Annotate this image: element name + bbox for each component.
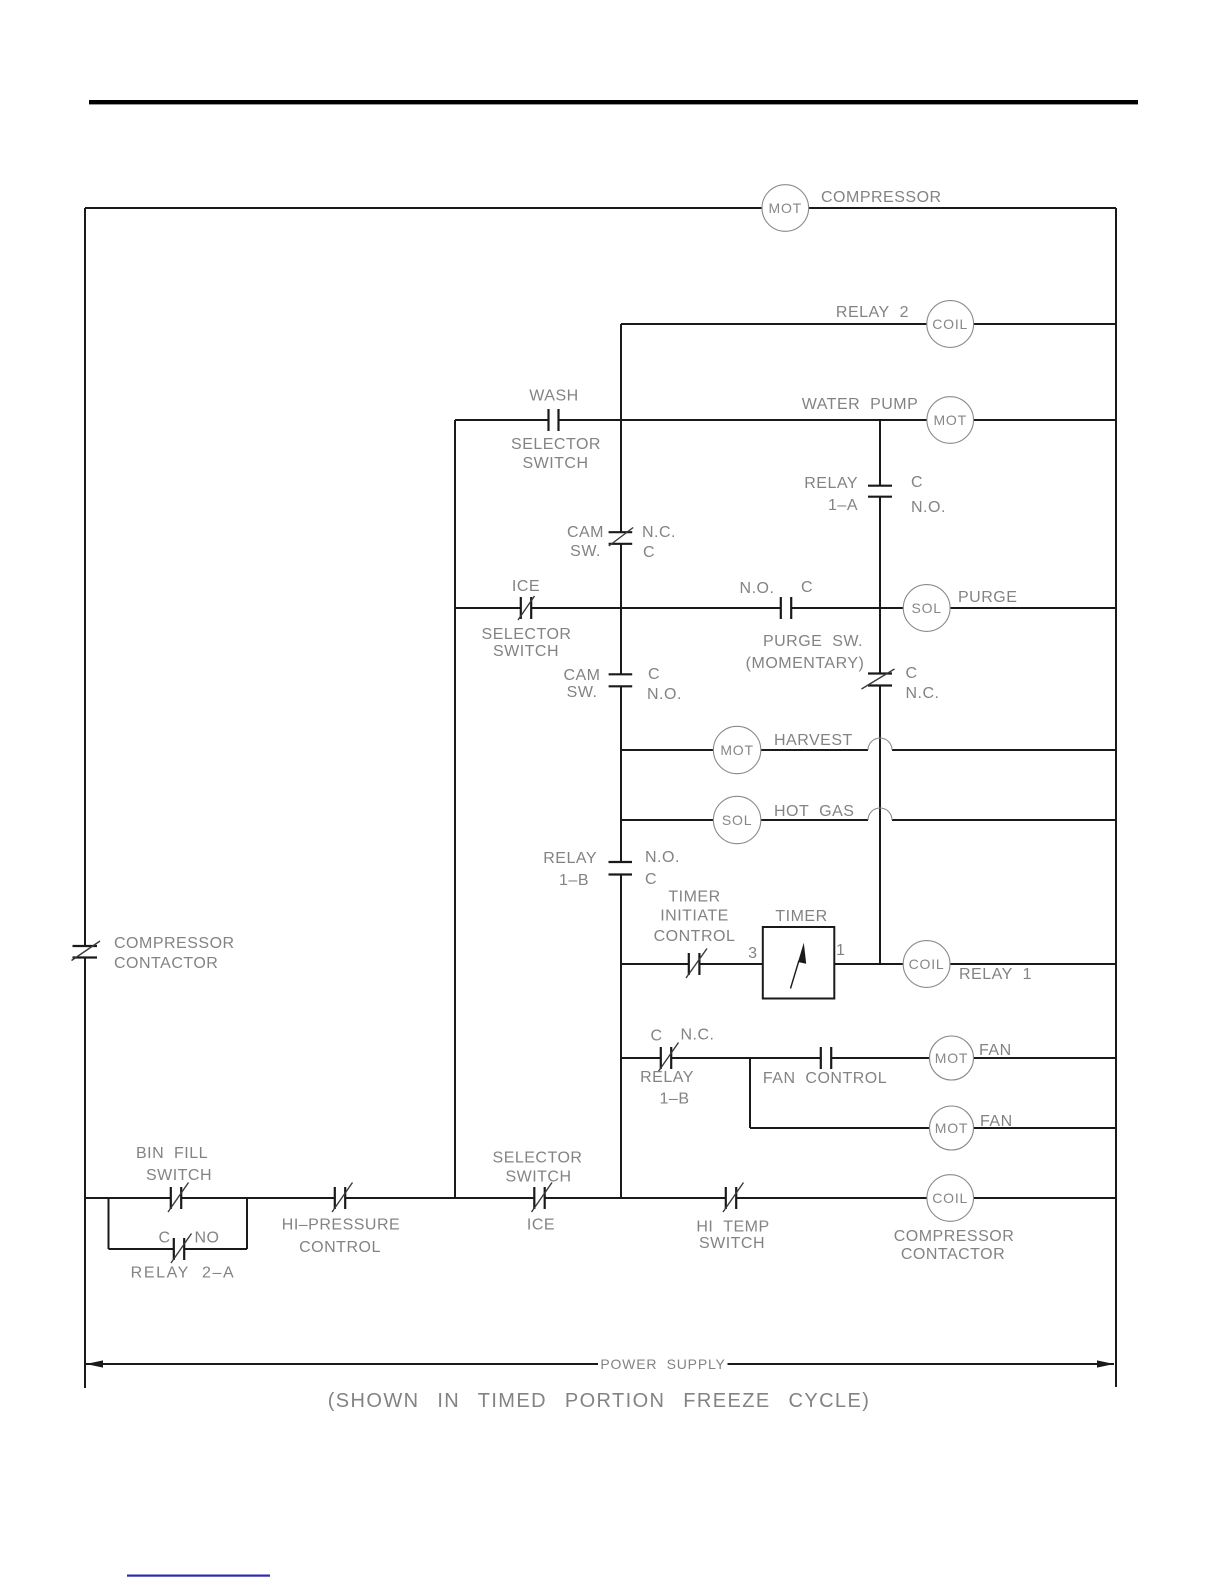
- solenoid SOL purge: [903, 585, 950, 632]
- svg-text:MOT: MOT: [933, 412, 967, 428]
- svg-text:HI–PRESSURE: HI–PRESSURE: [282, 1217, 400, 1234]
- svg-text:SWITCH: SWITCH: [146, 1167, 212, 1184]
- svg-text:N.O.: N.O.: [647, 686, 682, 703]
- label N.O. C (relay 1-B): [645, 849, 680, 888]
- svg-text:HOT GAS: HOT GAS: [774, 803, 854, 820]
- svg-text:COMPRESSOR: COMPRESSOR: [894, 1228, 1015, 1245]
- left power rail: [84, 208, 86, 1388]
- motor MOT water pump: [927, 397, 974, 444]
- svg-text:FAN: FAN: [979, 1042, 1012, 1059]
- svg-text:COIL: COIL: [909, 956, 945, 972]
- wire: center rail V1: [620, 324, 622, 1198]
- label COMPRESSOR CONTACTOR (coil): [894, 1228, 1015, 1263]
- contact RELAY 1-A N.O.: [868, 486, 892, 497]
- right power rail: [1115, 208, 1117, 1387]
- footer blue rule: [127, 1575, 270, 1577]
- label C N.O. (cam): [647, 666, 682, 703]
- timer clock hand arrow: [791, 943, 807, 989]
- svg-text:POWER SUPPLY: POWER SUPPLY: [600, 1356, 725, 1372]
- svg-text:SWITCH: SWITCH: [493, 643, 559, 660]
- svg-text:N.C.: N.C.: [906, 685, 940, 702]
- label C N.O. (relay 1-A): [911, 474, 946, 516]
- svg-text:COIL: COIL: [932, 316, 968, 332]
- power supply dimension arrow: [86, 1360, 1114, 1367]
- contact HI TEMP SWITCH: [723, 1183, 744, 1213]
- label CAM SW. (n.o.): [563, 667, 600, 701]
- contact TIMER INITIATE CONTROL: [686, 949, 707, 979]
- label COMPRESSOR CONTACTOR (left): [114, 935, 235, 972]
- svg-text:N.O.: N.O.: [911, 499, 946, 516]
- svg-text:SOL: SOL: [911, 600, 941, 616]
- top rule: [89, 100, 1138, 104]
- wire: fan rung 1: [621, 1057, 1116, 1059]
- contact BIN FILL SWITCH: [168, 1183, 189, 1213]
- svg-text:N.C.: N.C.: [642, 524, 676, 541]
- wire: fan branch V4: [749, 1058, 751, 1128]
- svg-text:N.O.: N.O.: [645, 849, 680, 866]
- contact RELAY 1-B N.O.: [609, 862, 633, 875]
- wire: relay 1-A branch V3: [879, 420, 881, 964]
- contact CAM SW. N.C.: [609, 528, 634, 547]
- svg-text:RELAY: RELAY: [640, 1069, 694, 1086]
- svg-text:TIMER: TIMER: [668, 889, 720, 906]
- svg-text:SWITCH: SWITCH: [522, 455, 588, 472]
- svg-text:3: 3: [748, 945, 757, 962]
- svg-text:HI TEMP: HI TEMP: [696, 1219, 769, 1236]
- svg-text:SW.: SW.: [570, 543, 601, 560]
- wire: timer rung: [621, 963, 1116, 965]
- svg-text:TIMER: TIMER: [775, 908, 827, 925]
- svg-text:SW.: SW.: [567, 684, 598, 701]
- wire: harvest rung: [621, 749, 1116, 751]
- svg-text:PURGE: PURGE: [958, 589, 1017, 606]
- svg-text:SWITCH: SWITCH: [505, 1169, 571, 1186]
- motor MOT fan 2: [930, 1106, 974, 1150]
- svg-text:MOT: MOT: [935, 1120, 969, 1136]
- svg-text:COMPRESSOR: COMPRESSOR: [114, 935, 235, 952]
- label HI TEMP SWITCH: [696, 1219, 769, 1253]
- svg-text:WASH: WASH: [529, 388, 578, 405]
- wire: hot gas rung: [621, 819, 1116, 821]
- svg-text:PURGE SW.: PURGE SW.: [763, 633, 863, 650]
- label SELECTOR SWITCH (ice): [482, 626, 572, 660]
- label N.C. C: [642, 524, 676, 561]
- label C NO (relay 2-A): [158, 1230, 219, 1247]
- wire: fan rung 2: [750, 1127, 1116, 1129]
- svg-text:C: C: [643, 544, 655, 561]
- label TIMER INITIATE CONTROL: [654, 889, 736, 946]
- coil COIL compressor contactor: [927, 1175, 974, 1222]
- contact SELECTOR SWITCH ICE: [532, 1183, 553, 1213]
- coil COIL relay 1: [903, 941, 950, 988]
- svg-text:1–A: 1–A: [828, 497, 858, 514]
- svg-text:RELAY 2: RELAY 2: [836, 304, 909, 321]
- svg-text:CAM: CAM: [563, 667, 600, 684]
- svg-text:C: C: [158, 1230, 170, 1247]
- svg-text:(MOMENTARY): (MOMENTARY): [746, 655, 865, 672]
- label N.O. C (purge sw): [740, 579, 813, 597]
- timer box: [763, 927, 835, 999]
- label RELAY 1-A: [804, 475, 858, 514]
- svg-text:CONTACTOR: CONTACTOR: [114, 955, 218, 972]
- svg-text:(SHOWN IN TIMED PORTION FR: (SHOWN IN TIMED PORTION FREEZE CYCLE): [328, 1390, 871, 1412]
- svg-text:1–B: 1–B: [660, 1091, 690, 1108]
- svg-text:CAM: CAM: [567, 524, 604, 541]
- svg-text:SELECTOR: SELECTOR: [493, 1150, 583, 1167]
- contact C N.C. (relay branch): [862, 669, 895, 689]
- contact HI-PRESSURE CONTROL: [332, 1183, 353, 1213]
- svg-text:C: C: [911, 474, 923, 491]
- svg-text:MOT: MOT: [769, 200, 803, 216]
- contact WASH selector switch: [549, 409, 559, 431]
- svg-text:C: C: [801, 579, 813, 596]
- svg-text:ICE: ICE: [512, 578, 540, 595]
- wire: wash sub rail V2: [454, 420, 456, 1198]
- svg-text:FAN CONTROL: FAN CONTROL: [763, 1070, 887, 1087]
- wire: water pump rung: [455, 419, 1116, 421]
- wire: bottom rung: [85, 1197, 1116, 1199]
- motor MOT harvest: [713, 726, 760, 773]
- contact FAN CONTROL: [821, 1047, 831, 1069]
- svg-text:CONTACTOR: CONTACTOR: [901, 1246, 1005, 1263]
- label BIN FILL SWITCH: [136, 1145, 212, 1184]
- label SELECTOR SWITCH (bottom): [493, 1150, 583, 1186]
- svg-text:1–B: 1–B: [559, 872, 589, 889]
- wire: compressor rung: [85, 207, 1116, 209]
- svg-text:HARVEST: HARVEST: [774, 732, 853, 749]
- svg-text:SWITCH: SWITCH: [699, 1235, 765, 1252]
- svg-text:C: C: [650, 1028, 662, 1045]
- contact COMPRESSOR CONTACTOR (left rail): [72, 941, 101, 961]
- svg-text:N.O.: N.O.: [740, 580, 775, 597]
- contact CAM SW. C N.O.: [609, 674, 633, 686]
- svg-text:C: C: [648, 666, 660, 683]
- wire: relay 2-A parallel branch: [109, 1198, 248, 1249]
- svg-text:CONTROL: CONTROL: [299, 1239, 381, 1256]
- coil COIL relay 2: [927, 301, 974, 348]
- label RELAY 1-B: [543, 850, 597, 889]
- svg-text:SELECTOR: SELECTOR: [482, 626, 572, 643]
- svg-text:C: C: [906, 665, 918, 682]
- contact ICE selector switch: [518, 596, 535, 620]
- svg-text:NO: NO: [195, 1230, 220, 1247]
- svg-text:CONTROL: CONTROL: [654, 928, 736, 945]
- svg-text:SOL: SOL: [722, 812, 752, 828]
- svg-text:SELECTOR: SELECTOR: [511, 436, 601, 453]
- contact RELAY 1-B C N.C.: [658, 1043, 679, 1073]
- label C N.C. (fan relay): [650, 1027, 714, 1045]
- motor MOT fan 1: [930, 1036, 974, 1080]
- svg-text:INITIATE: INITIATE: [660, 908, 729, 925]
- label HI-PRESSURE CONTROL: [282, 1217, 400, 1257]
- label CAM SW. (n.c.): [567, 524, 604, 560]
- wire hop (hot gas over V3): [868, 808, 892, 820]
- svg-text:FAN: FAN: [980, 1113, 1013, 1130]
- label C N.C. (branch): [906, 665, 940, 702]
- label SELECTOR SWITCH (wash): [511, 436, 601, 472]
- wire: ice / purge rung: [455, 607, 1116, 609]
- svg-text:COIL: COIL: [932, 1190, 968, 1206]
- solenoid SOL hot gas: [713, 796, 760, 843]
- svg-text:RELAY: RELAY: [543, 850, 597, 867]
- svg-text:N.C.: N.C.: [681, 1027, 715, 1044]
- svg-text:MOT: MOT: [935, 1050, 969, 1066]
- svg-text:WATER PUMP: WATER PUMP: [802, 396, 919, 413]
- contact RELAY 2-A C NO: [171, 1234, 192, 1264]
- svg-text:RELAY 2–A: RELAY 2–A: [131, 1265, 236, 1282]
- svg-text:MOT: MOT: [720, 742, 754, 758]
- svg-text:1: 1: [836, 942, 845, 959]
- wire hop (harvest over V3): [868, 738, 892, 750]
- svg-text:RELAY 1: RELAY 1: [959, 966, 1032, 983]
- svg-text:COMPRESSOR: COMPRESSOR: [821, 189, 942, 206]
- label RELAY 1-B (fan): [640, 1069, 694, 1108]
- svg-text:C: C: [645, 871, 657, 888]
- motor MOT compressor: [762, 185, 809, 232]
- svg-text:ICE: ICE: [527, 1217, 555, 1234]
- svg-text:BIN FILL: BIN FILL: [136, 1145, 208, 1162]
- label PURGE SW. (MOMENTARY): [746, 633, 865, 672]
- svg-text:RELAY: RELAY: [804, 475, 858, 492]
- contact PURGE SW. momentary: [781, 597, 791, 619]
- wire: relay 2 rung: [621, 323, 1116, 325]
